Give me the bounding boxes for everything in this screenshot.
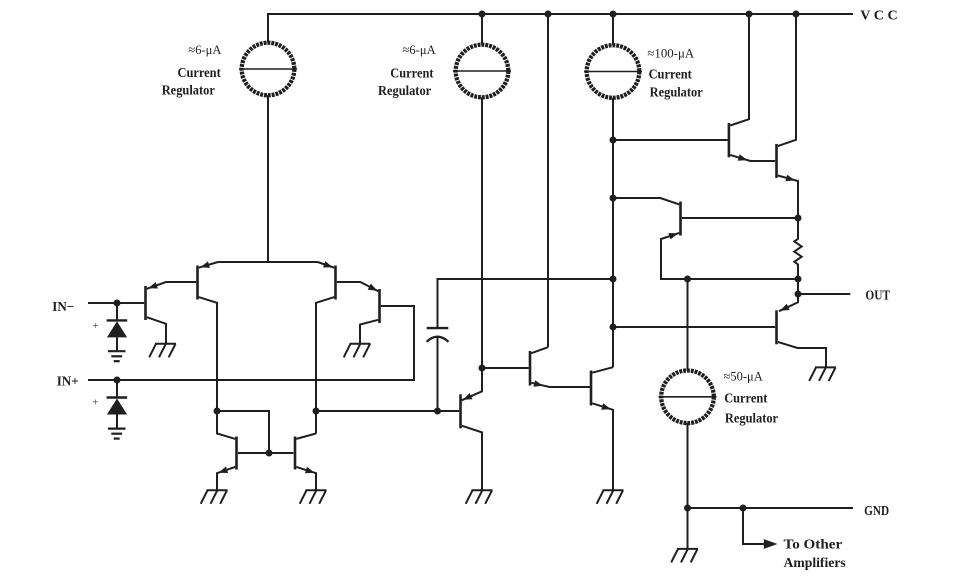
transistor Q9 base bar xyxy=(590,371,593,406)
transistor Q4 collector lead xyxy=(360,320,378,344)
transistor Q13 emitter arrow (PNP) xyxy=(780,304,790,311)
transistor Q7 collector lead xyxy=(462,426,482,491)
diode D1 anode wire xyxy=(116,337,118,351)
wire Q11 base to main vertical xyxy=(613,139,728,141)
wire VCC rail xyxy=(268,13,853,15)
wire junction dot Q7 emitter / I2 xyxy=(479,365,486,372)
transistor Q11 collector lead xyxy=(730,15,749,126)
wire Q10 collector to main vertical xyxy=(613,198,679,204)
label I4 Regulator xyxy=(725,412,778,427)
wire junction dot IN- clamp diode xyxy=(114,300,121,307)
capacitor C1 top plate xyxy=(427,327,449,329)
wire mirror output to Q7 base xyxy=(316,410,459,412)
transistor Q11 base bar xyxy=(728,123,731,157)
wire Q5 collector-base tie xyxy=(217,411,269,453)
wire VCC to I2 top xyxy=(481,13,483,45)
svg-text:V C C: V C C xyxy=(860,9,897,24)
label I3 Regulator xyxy=(650,85,703,100)
resistor R1 xyxy=(794,218,801,294)
current regulator I1 (6-uA) xyxy=(239,43,297,96)
wire junction dot Q2 collector / mirror input xyxy=(214,408,221,415)
wire GND rail xyxy=(688,507,854,509)
capacitor C1 bottom plate (curved) xyxy=(427,337,449,342)
diode D2 polarity mark + xyxy=(93,398,99,409)
transistor Q6 base bar xyxy=(294,437,297,470)
wire VCC drop to Q8 collector xyxy=(547,13,549,347)
wire Q13 base to main vertical xyxy=(613,326,775,328)
transistor Q10 emitter arrow (PNP) xyxy=(668,233,678,239)
svg-text:+: + xyxy=(93,398,99,409)
wire Q10 base to resistor top xyxy=(682,217,798,219)
transistor Q2 emitter arrow (PNP) xyxy=(200,261,210,268)
wire junction dot mirror base tie xyxy=(266,450,273,457)
label I2 Current xyxy=(390,67,433,82)
transistor Q3 emitter lead xyxy=(318,262,335,268)
label I4 Current xyxy=(724,392,767,407)
arrow to other amplifiers xyxy=(764,539,778,549)
transistor Q1 emitter lead xyxy=(147,282,196,289)
wire junction dot Q3 collector / mirror output xyxy=(313,408,320,415)
wire junction dot Q11 base tap xyxy=(610,137,617,144)
transistor Q6 emitter arrow (NPN) xyxy=(305,467,315,474)
wire IN+ riser to Q4 base xyxy=(381,306,414,381)
node IN- label xyxy=(52,300,74,315)
transistor Q1 emitter arrow (PNP) xyxy=(148,282,158,288)
wire junction dot VCC-Q11 xyxy=(746,11,753,18)
node IN+ label xyxy=(57,374,79,389)
transistor Q13 collector lead xyxy=(778,342,826,368)
wire junction dot VCC-Q12 xyxy=(793,11,800,18)
wire I1 bottom to input pair emitters xyxy=(267,95,269,262)
transistor Q12 emitter lead xyxy=(778,176,798,219)
transistor Q3 collector lead xyxy=(316,297,334,433)
transistor Q8 collector lead xyxy=(531,347,548,353)
svg-text:Regulator: Regulator xyxy=(725,412,778,427)
ground (chassis) for Q4 xyxy=(344,344,371,358)
node GND label xyxy=(864,504,889,519)
wire junction dot Q13 base tap xyxy=(610,324,617,331)
wire junction dot IN+ clamp diode xyxy=(114,377,121,384)
transistor Q9 collector lead xyxy=(592,367,613,373)
wire junction dot OUT xyxy=(795,291,802,298)
wire I2 bottom to node Q7 emitter xyxy=(481,97,483,368)
transistor Q11 emitter arrow (NPN) xyxy=(738,154,748,161)
svg-text:≈6-μA: ≈6-μA xyxy=(188,42,222,57)
transistor Q2 emitter lead xyxy=(199,262,218,268)
current regulator I2 (6-uA) xyxy=(453,45,511,98)
transistor Q12 collector lead xyxy=(778,15,796,146)
svg-text:Regulator: Regulator xyxy=(162,84,215,99)
transistor Q12 emitter arrow (NPN) xyxy=(785,175,795,182)
transistor Q7 emitter lead xyxy=(462,368,482,400)
svg-text:≈50-μA: ≈50-μA xyxy=(724,369,764,384)
transistor Q1 base bar xyxy=(144,286,147,320)
ground (chassis) for Q6 xyxy=(300,490,327,504)
node OUT label xyxy=(865,288,890,303)
svg-text:Amplifiers: Amplifiers xyxy=(784,555,846,570)
label I2 Regulator xyxy=(378,84,431,99)
ground (chassis) for Q5 xyxy=(201,490,228,504)
wire junction dot bias rail / I4 xyxy=(684,276,691,283)
wire cap C1 top lead xyxy=(437,280,439,327)
transistor Q6 collector lead xyxy=(296,434,316,439)
label I1 Current xyxy=(178,66,221,81)
svg-text:To Other: To Other xyxy=(784,536,843,551)
transistor Q4 emitter arrow (PNP) xyxy=(368,284,378,291)
svg-text:Current: Current xyxy=(390,67,433,82)
svg-text:+: + xyxy=(93,321,99,332)
transistor Q10 emitter lead xyxy=(661,233,798,279)
wire junction dot resistor bottom / bias rail xyxy=(795,276,802,283)
transistor Q5 emitter arrow (NPN) xyxy=(219,467,229,474)
transistor Q8 emitter arrow (NPN) xyxy=(533,380,543,387)
transistor Q7 emitter arrow (PNP) xyxy=(463,393,473,400)
diode D1 anode triangle xyxy=(107,321,127,337)
wire to other amplifiers xyxy=(743,508,764,544)
svg-text:Regulator: Regulator xyxy=(650,85,703,100)
svg-text:IN+: IN+ xyxy=(57,374,79,389)
svg-text:≈6-μA: ≈6-μA xyxy=(403,42,437,57)
current regulator I4 (50-uA) xyxy=(659,371,717,424)
transistor Q5 base bar xyxy=(235,437,238,470)
transistor Q5 emitter lead xyxy=(217,467,235,490)
wire OUT lead xyxy=(798,293,850,295)
wire junction dot VCC-Q8 drop xyxy=(545,11,552,18)
transistor Q8 emitter lead xyxy=(531,383,590,387)
diode D2 cathode wire xyxy=(116,380,118,397)
wire IN+ lead xyxy=(88,379,414,381)
transistor Q3 base bar xyxy=(334,266,337,300)
transistor Q9 emitter arrow (NPN) xyxy=(601,403,611,410)
current regulator I3 (100-uA) xyxy=(584,45,642,98)
diode D1 cathode bar xyxy=(107,319,128,321)
transistor Q13 base bar xyxy=(775,310,778,344)
wire junction dot GND to-other-amps tap xyxy=(740,505,747,512)
svg-text:GND: GND xyxy=(864,504,889,519)
wire junction dot compensation-cap tap xyxy=(610,276,617,283)
wire junction dot GND-I4 xyxy=(684,505,691,512)
transistor Q8 base bar xyxy=(529,351,532,386)
ground (earth) for D2 xyxy=(108,429,126,439)
label To Other xyxy=(784,536,843,551)
svg-text:OUT: OUT xyxy=(865,288,890,303)
svg-text:Current: Current xyxy=(724,392,767,407)
label I1 Regulator xyxy=(162,84,215,99)
wire input pair common emitter rail xyxy=(218,261,318,263)
value label I4 approx 50-uA xyxy=(724,369,764,384)
value label I3 approx 100-uA xyxy=(647,46,694,61)
transistor Q1 collector lead xyxy=(147,317,166,344)
transistor Q4 base bar xyxy=(378,289,381,323)
transistor Q3 emitter arrow (PNP) xyxy=(323,261,333,267)
transistor Q7 base bar xyxy=(459,394,462,428)
svg-text:Current: Current xyxy=(178,66,221,81)
label Amplifiers xyxy=(784,555,846,570)
diode D2 anode wire xyxy=(116,415,118,429)
wire junction dot Q10 collector tap xyxy=(610,195,617,202)
wire IN- lead xyxy=(88,302,144,304)
label I3 Current xyxy=(649,67,692,82)
transistor Q11 emitter lead xyxy=(730,155,775,161)
transistor Q2 base bar xyxy=(196,266,199,300)
wire VCC to I1 top xyxy=(267,13,269,43)
transistor Q2 collector lead xyxy=(199,297,236,439)
ground (chassis) for Q13 xyxy=(809,367,836,381)
ground (earth) for D1 xyxy=(108,351,126,361)
ground (chassis) below GND rail xyxy=(671,549,698,563)
wire cap C1 bottom lead xyxy=(437,337,439,411)
wire VCC to I3 top xyxy=(612,13,614,45)
svg-text:≈100-μA: ≈100-μA xyxy=(647,46,694,61)
value label I2 approx 6-uA xyxy=(403,42,437,57)
transistor Q6 emitter lead xyxy=(296,467,316,490)
diode D1 cathode wire xyxy=(116,303,118,319)
node VCC label xyxy=(860,9,897,24)
transistor Q4 emitter lead xyxy=(337,282,379,291)
value label I1 approx 6-uA xyxy=(188,42,222,57)
wire Q7 emitter node to Q8 base xyxy=(482,367,529,369)
transistor Q9 emitter lead xyxy=(592,403,613,490)
transistor Q10 base bar xyxy=(679,202,682,236)
wire junction dot VCC-I3 xyxy=(610,11,617,18)
svg-text:IN−: IN− xyxy=(52,300,74,315)
ground (chassis) for Q7 xyxy=(466,490,493,504)
wire mirror base rail xyxy=(238,452,294,454)
transistor Q12 base bar xyxy=(775,144,778,178)
wire bias rail to I4 top xyxy=(687,279,689,371)
wire I4 bottom to GND rail xyxy=(687,423,689,549)
svg-text:Regulator: Regulator xyxy=(378,84,431,99)
ground (chassis) for Q1 xyxy=(149,344,176,358)
wire junction dot resistor top / Q10 base xyxy=(795,215,802,222)
svg-text:Current: Current xyxy=(649,67,692,82)
transistor Q13 emitter lead xyxy=(779,294,798,311)
ground (chassis) for Q9 xyxy=(597,490,624,504)
wire I3 bottom main vertical to Q9 collector xyxy=(612,98,614,367)
wire junction dot compensation cap bottom xyxy=(434,408,441,415)
wire junction dot VCC-I2 xyxy=(479,11,486,18)
diode D2 anode triangle xyxy=(107,399,127,415)
wire cap node to main vertical xyxy=(437,278,614,280)
diode D1 polarity mark + xyxy=(93,321,99,332)
diode D2 cathode bar xyxy=(107,396,128,398)
